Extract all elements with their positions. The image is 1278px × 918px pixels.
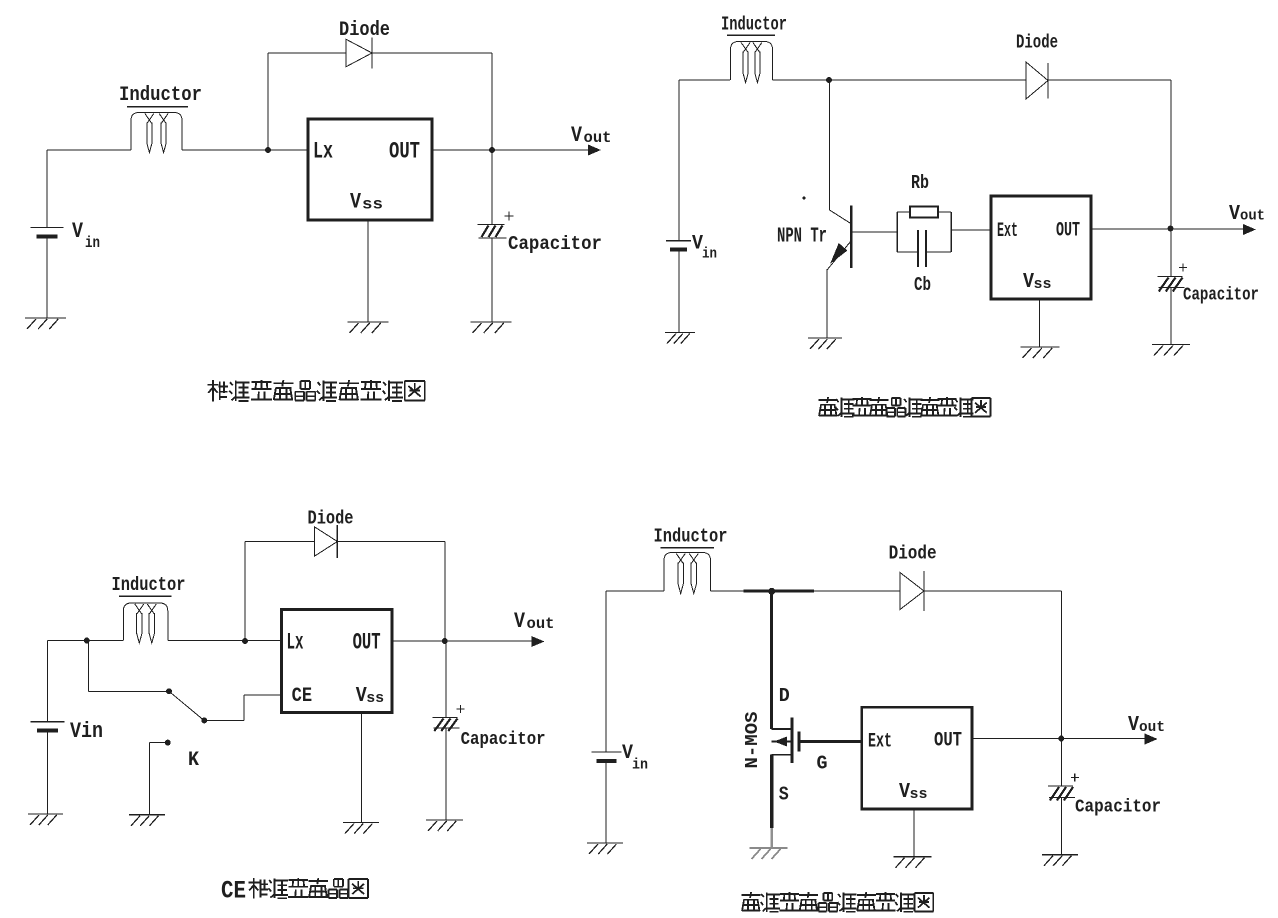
capacitor (circuit 2)	[1158, 277, 1185, 292]
svg-text:Diode: Diode	[889, 543, 937, 565]
wire source stub gray (circuit 4)	[771, 828, 773, 848]
svg-text:S: S	[779, 784, 789, 806]
svg-text:ss: ss	[910, 786, 928, 803]
ground capacitor (circuit 2)	[1152, 345, 1190, 356]
label D (circuit 4)	[779, 685, 790, 707]
wire switch branch (circuit 3)	[89, 641, 170, 692]
label Capacitor (circuit 2)	[1183, 285, 1259, 306]
wire capacitor to ground (circuit 4)	[1061, 798, 1063, 855]
label Capacitor (circuit 3)	[461, 729, 546, 750]
svg-text:ss: ss	[1034, 276, 1052, 293]
label K (circuit 3)	[188, 749, 199, 772]
node OUT junction (circuit 1)	[489, 147, 495, 153]
label G (circuit 4)	[817, 753, 828, 775]
label Vin (circuit 3)	[70, 719, 103, 744]
svg-text:V: V	[72, 219, 84, 244]
svg-text:Inductor: Inductor	[119, 84, 202, 107]
pin label Ext (circuit 4)	[868, 731, 892, 754]
wire battery to ground (circuit 2)	[678, 250, 680, 333]
svg-text:Inductor: Inductor	[654, 526, 728, 548]
svg-text:Lx: Lx	[287, 630, 304, 656]
arrow Vout (circuit 1)	[588, 145, 601, 156]
label Vin (circuit 1)	[72, 219, 100, 252]
svg-text:D: D	[779, 685, 790, 707]
svg-text:V: V	[1128, 714, 1139, 737]
label Diode (circuit 4)	[889, 543, 937, 565]
label Inductor (circuit 4)	[654, 526, 728, 548]
wire thick drain segment (circuit 4)	[744, 590, 815, 593]
label NPN Tr (circuit 2)	[777, 226, 827, 249]
label Rb (circuit 2)	[911, 172, 929, 194]
pin label Vss (circuit 4)	[899, 781, 928, 804]
svg-text:out: out	[1240, 208, 1265, 225]
caption circuit 3	[221, 877, 368, 906]
node drain junction (circuit 4)	[768, 588, 775, 595]
wire inductor to Lx pin (circuit 1)	[182, 149, 308, 151]
ground battery (circuit 2)	[665, 333, 695, 344]
battery Vin (circuit 3)	[31, 722, 65, 731]
node Lx junction (circuit 1)	[265, 147, 271, 153]
svg-text:OUT: OUT	[353, 630, 381, 656]
label Vout (circuit 4)	[1128, 714, 1165, 737]
diode (circuit 4)	[900, 571, 924, 611]
wire diode to output rail (circuit 2)	[1048, 80, 1171, 229]
wire Vin to inductor (circuit 3)	[48, 641, 124, 722]
wire Vss to ground (circuit 2)	[1039, 299, 1041, 347]
label Capacitor (circuit 4)	[1075, 797, 1161, 818]
pin label OUT (circuit 4)	[934, 730, 962, 753]
pin label Lx (circuit 1)	[313, 139, 333, 165]
node collector junction (circuit 2)	[826, 77, 832, 83]
svg-text:ss: ss	[362, 196, 383, 214]
wire Ext lead (circuit 2)	[951, 229, 991, 231]
ground Vss (circuit 2)	[1021, 347, 1060, 358]
node output junction (circuit 2)	[1168, 226, 1174, 232]
arrow Vout (circuit 3)	[531, 636, 544, 647]
svg-text:out: out	[1139, 719, 1165, 736]
capacitor Cb (circuit 2)	[918, 230, 926, 267]
wire emitter to ground (circuit 2)	[826, 269, 828, 338]
speck dot (circuit 2)	[803, 197, 806, 200]
svg-text:V: V	[350, 190, 362, 215]
wire OUT to Vout arrow (circuit 1)	[432, 149, 598, 151]
label Capacitor (circuit 1)	[508, 233, 602, 255]
label N-MOS rotated (circuit 4)	[743, 711, 763, 768]
svg-text:G: G	[817, 753, 828, 775]
op-amp IC U4 box (circuit 4)	[862, 707, 972, 809]
label Vin (circuit 2)	[692, 233, 717, 263]
label Diode (circuit 1)	[339, 19, 390, 42]
caption circuit 4	[742, 892, 934, 912]
svg-text:Ext: Ext	[868, 731, 892, 754]
label Cb (circuit 2)	[914, 274, 931, 296]
wire diode branch up (circuit 1)	[268, 53, 346, 150]
wire battery to ground (circuit 3)	[47, 731, 49, 815]
op-amp IC U2 box (circuit 2)	[991, 196, 1091, 299]
svg-text:in: in	[85, 234, 100, 252]
wire OUT to Vout (circuit 2)	[1091, 228, 1253, 230]
resistor Rb (circuit 2)	[910, 207, 938, 218]
wire rail to capacitor (circuit 2)	[1170, 229, 1172, 277]
svg-text:Diode: Diode	[1016, 32, 1058, 54]
caption circuit 1	[207, 380, 424, 401]
inductor (circuit 2)	[731, 42, 773, 83]
wire diode to OUT node (circuit 3)	[337, 542, 444, 642]
wire Vin to inductor (circuit 2)	[679, 80, 730, 241]
ground battery (circuit 1)	[25, 318, 66, 329]
pin label Ext (circuit 2)	[997, 220, 1018, 243]
svg-text:Capacitor: Capacitor	[508, 233, 602, 255]
wire battery to ground (circuit 1)	[46, 237, 48, 319]
pin label OUT (circuit 1)	[389, 139, 420, 165]
caption circuit 2	[819, 397, 991, 417]
svg-text:in: in	[632, 757, 648, 774]
pin label Vss (circuit 2)	[1023, 271, 1052, 294]
battery Vin (circuit 4)	[591, 752, 621, 761]
label Inductor (circuit 3)	[112, 574, 186, 596]
svg-text:N-MOS: N-MOS	[743, 711, 763, 768]
node OUT junction (circuit 3)	[442, 638, 448, 644]
svg-text:CE: CE	[292, 685, 313, 708]
svg-text:Lx: Lx	[313, 139, 333, 165]
label Vout (circuit 3)	[514, 609, 555, 634]
svg-text:OUT: OUT	[389, 139, 420, 165]
wire Vss to ground (circuit 4)	[913, 809, 915, 857]
capacitor (circuit 4)	[1048, 786, 1075, 801]
wire gate lead (circuit 4)	[799, 740, 862, 743]
label Vin (circuit 4)	[622, 742, 648, 774]
svg-text:Diode: Diode	[339, 19, 390, 42]
svg-text:OUT: OUT	[934, 730, 962, 753]
svg-text:Inductor: Inductor	[721, 14, 787, 36]
pin label CE (circuit 3)	[292, 685, 313, 708]
label Diode (circuit 2)	[1016, 32, 1058, 54]
node switch branch (circuit 3)	[84, 638, 90, 644]
ground battery (circuit 4)	[587, 843, 623, 854]
label plus (circuit 3)	[457, 705, 465, 713]
inductor (circuit 3)	[123, 603, 168, 643]
label Diode (circuit 3)	[308, 508, 354, 530]
node output junction (circuit 4)	[1058, 736, 1064, 742]
svg-text:Rb: Rb	[911, 172, 929, 194]
svg-text:ss: ss	[366, 690, 384, 707]
svg-text:CE: CE	[221, 877, 246, 906]
svg-text:Cb: Cb	[914, 274, 931, 296]
ground battery (circuit 3)	[28, 814, 63, 825]
wire inductor to diode (circuit 4)	[711, 590, 901, 592]
label Vout (circuit 2)	[1229, 203, 1265, 226]
wire inductor to diode (circuit 2)	[773, 79, 1027, 81]
svg-text:Capacitor: Capacitor	[1183, 285, 1259, 306]
node K terminal (circuit 3)	[165, 740, 171, 746]
svg-text:out: out	[527, 615, 555, 633]
ground Vss (circuit 1)	[348, 322, 389, 333]
wire OUT to Vout (circuit 3)	[392, 640, 541, 642]
diode (circuit 2)	[1026, 62, 1048, 99]
arrow Vout (circuit 2)	[1243, 224, 1256, 235]
transistor Q2 N-MOS (circuit 4)	[772, 718, 799, 829]
svg-text:Vin: Vin	[70, 719, 103, 744]
svg-text:V: V	[1229, 203, 1240, 226]
node diode junction (circuit 3)	[242, 638, 248, 644]
ground source gray (circuit 4)	[750, 848, 788, 859]
label plus (circuit 4)	[1071, 774, 1079, 782]
capacitor (circuit 3)	[433, 718, 460, 732]
svg-text:Diode: Diode	[308, 508, 354, 530]
ground emitter (circuit 2)	[808, 338, 842, 349]
svg-text:K: K	[188, 749, 199, 772]
ground capacitor (circuit 4)	[1042, 855, 1078, 866]
svg-text:Capacitor: Capacitor	[1075, 797, 1161, 818]
wire battery to ground (circuit 4)	[605, 761, 607, 843]
svg-text:in: in	[702, 246, 717, 263]
inductor (circuit 4)	[664, 553, 711, 594]
ground capacitor (circuit 3)	[426, 820, 463, 831]
label Inductor (circuit 2)	[721, 14, 787, 36]
wire collector branch (circuit 2)	[830, 80, 851, 223]
wire base lead (circuit 2)	[851, 231, 897, 233]
capacitor (circuit 1)	[478, 225, 507, 239]
wire OUT node to capacitor (circuit 3)	[445, 641, 447, 718]
ground Vss (circuit 3)	[343, 823, 379, 834]
op-amp IC U3 box (circuit 3)	[282, 609, 393, 712]
wire diode to output rail (circuit 4)	[924, 591, 1062, 739]
label S (circuit 4)	[779, 784, 789, 806]
pin label Lx (circuit 3)	[287, 630, 304, 656]
wire diode branch (circuit 3)	[245, 542, 315, 642]
wire switch to CE pin (circuit 3)	[204, 695, 281, 721]
pin label OUT (circuit 3)	[353, 630, 381, 656]
wire rail to capacitor (circuit 4)	[1061, 739, 1063, 787]
wire capacitor to ground (circuit 2)	[1170, 288, 1172, 345]
pin label Vss (circuit 3)	[356, 685, 385, 708]
ground capacitor (circuit 1)	[471, 322, 512, 333]
switch K blade (circuit 3)	[166, 688, 207, 723]
op-amp IC U1 box (circuit 1)	[308, 119, 432, 220]
wire capacitor to ground (circuit 1)	[491, 238, 493, 322]
svg-text:Inductor: Inductor	[112, 574, 186, 596]
wire drain vertical (circuit 4)	[770, 591, 773, 729]
label Inductor (circuit 1)	[119, 84, 202, 107]
transistor Q1 NPN (circuit 2)	[827, 206, 851, 271]
wire OUT to Vout (circuit 4)	[972, 738, 1154, 740]
ground K (circuit 3)	[129, 815, 165, 826]
svg-text:Ext: Ext	[997, 220, 1018, 243]
svg-text:out: out	[584, 129, 612, 147]
arrow Vout (circuit 4)	[1145, 734, 1158, 745]
wire Vin to inductor (circuit 1)	[47, 150, 131, 227]
diode (circuit 3)	[315, 525, 338, 558]
svg-text:V: V	[571, 123, 583, 148]
resistor Rb network frame (circuit 2)	[897, 212, 951, 252]
wire capacitor to ground (circuit 3)	[445, 728, 447, 820]
inductor (circuit 1)	[131, 113, 182, 153]
svg-text:Capacitor: Capacitor	[461, 729, 546, 750]
battery Vin (circuit 2)	[666, 241, 691, 250]
svg-text:NPN Tr: NPN Tr	[777, 226, 827, 249]
wire OUT node to capacitor (circuit 1)	[491, 150, 493, 224]
pin label Vss (circuit 1)	[350, 190, 383, 215]
svg-text:V: V	[514, 609, 526, 634]
wire Vss to ground (circuit 1)	[367, 220, 369, 322]
wire Vin to inductor (circuit 4)	[606, 591, 664, 752]
wire K to ground (circuit 3)	[149, 743, 167, 815]
label Vout (circuit 1)	[571, 123, 612, 148]
wire Vss to ground (circuit 3)	[361, 713, 363, 823]
svg-text:OUT: OUT	[1056, 220, 1080, 243]
wire diode to OUT node (circuit 1)	[372, 53, 492, 150]
pin label OUT (circuit 2)	[1056, 220, 1080, 243]
ground Vss (circuit 4)	[894, 857, 932, 868]
wire inductor to Lx pin (circuit 3)	[168, 640, 282, 642]
battery Vin (circuit 1)	[31, 228, 64, 237]
label plus (circuit 2)	[1179, 264, 1187, 272]
diode (circuit 1)	[346, 38, 372, 69]
label plus (circuit 1)	[505, 212, 514, 221]
